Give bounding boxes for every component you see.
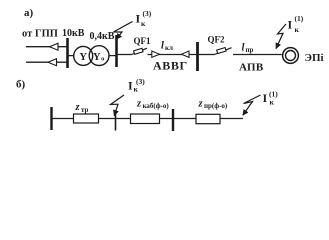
short-circuit bolt K1 top — [276, 24, 286, 49]
svg-text:каб(ф-о): каб(ф-о) — [143, 102, 170, 110]
svg-text:от ГПП: от ГПП — [22, 29, 58, 40]
svg-text:I: I — [136, 12, 141, 26]
bus 0.4 kV — [115, 35, 118, 67]
wire APV to receiver — [233, 54, 282, 56]
svg-text:(3): (3) — [136, 77, 145, 86]
svg-text:к: к — [295, 25, 300, 34]
wire feeder line 1 — [26, 46, 68, 48]
wire feeder line 2 — [26, 61, 68, 63]
svg-text:I: I — [288, 18, 293, 32]
transformer T primary winding — [74, 46, 93, 65]
svg-text:z: z — [198, 99, 204, 110]
svg-text:о: о — [101, 55, 104, 62]
svg-text:Y: Y — [79, 52, 87, 63]
svg-text:l: l — [242, 43, 245, 54]
svg-text:к: к — [270, 98, 275, 107]
svg-text:(3): (3) — [143, 9, 152, 18]
wire bus to transformer — [69, 55, 74, 57]
wire equivalent circuit — [53, 118, 244, 120]
svg-text:пр: пр — [246, 46, 254, 54]
svg-text:10кВ: 10кВ — [62, 28, 85, 39]
breaker QF2 box — [217, 48, 226, 54]
svg-text:АПВ: АПВ — [239, 62, 264, 74]
terminal bar left — [50, 107, 52, 130]
svg-text:(1): (1) — [269, 90, 278, 99]
arrowhead cable left — [152, 51, 160, 57]
svg-text:тр: тр — [81, 106, 89, 114]
bus bar middle bottom — [172, 109, 174, 131]
svg-text:z: z — [75, 102, 81, 113]
wire bus to QF2 — [199, 54, 215, 56]
arrowhead cable right — [182, 51, 190, 57]
breaker QF1 blade — [132, 48, 148, 54]
arrowhead feeder 2 — [48, 59, 57, 66]
svg-text:I: I — [128, 79, 133, 93]
svg-text:Y: Y — [93, 52, 101, 63]
resistor z_pr — [196, 114, 220, 123]
svg-text:пр(ф-о): пр(ф-о) — [204, 102, 228, 110]
svg-text:0,4кВ: 0,4кВ — [90, 31, 115, 42]
resistor z_kab — [131, 114, 160, 124]
short-circuit bolt K1 bottom — [243, 95, 261, 115]
breaker QF2 blade — [215, 48, 232, 55]
breaker QF1 box — [134, 48, 143, 54]
wire transformer to 0.4 bus — [109, 55, 117, 57]
bus 10 kV — [66, 38, 69, 68]
receiver EP inner circle — [286, 51, 296, 61]
svg-text:(1): (1) — [295, 14, 304, 23]
svg-text:АВВГ: АВВГ — [153, 59, 188, 73]
svg-text:к: к — [141, 19, 146, 28]
svg-text:ЭПi: ЭПi — [305, 52, 324, 64]
bus RP — [196, 42, 199, 71]
wire cable AVVG — [148, 54, 198, 56]
node K3 tick — [115, 112, 117, 131]
svg-text:QF2: QF2 — [208, 35, 225, 45]
resistor z_tr — [74, 114, 99, 123]
wire bus to QF1 — [118, 54, 132, 56]
svg-text:I: I — [263, 91, 268, 105]
svg-text:б): б) — [16, 79, 26, 91]
svg-text:кл: кл — [165, 44, 173, 52]
svg-text:z: z — [136, 99, 142, 110]
svg-text:l: l — [161, 41, 164, 52]
short-circuit bolt K3 top — [114, 22, 133, 40]
arrowhead feeder 1 — [50, 43, 59, 50]
svg-text:QF1: QF1 — [134, 36, 151, 46]
short-circuit bolt K3 bottom — [111, 95, 125, 116]
transformer T secondary winding — [89, 46, 109, 66]
svg-text:а): а) — [24, 7, 34, 19]
receiver EP outer circle — [283, 48, 299, 64]
